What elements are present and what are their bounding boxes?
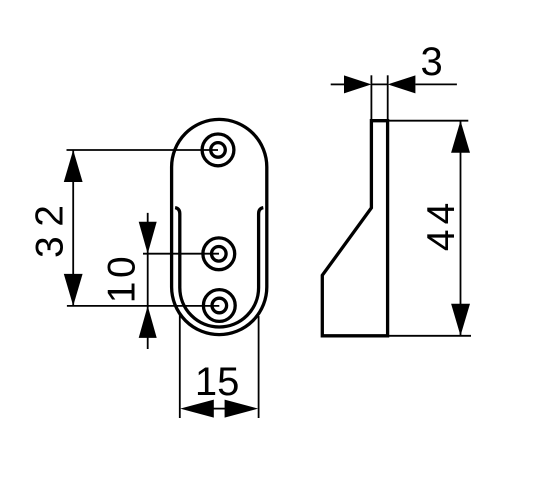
extension line 44 top <box>389 120 469 122</box>
arrowhead 3 left <box>344 75 371 93</box>
dimension line 3 left tail <box>331 83 345 85</box>
dimension line 44 <box>460 121 462 336</box>
extension line top hole center <box>67 149 219 151</box>
extension line middle hole center <box>143 253 219 255</box>
arrowhead 10 upper <box>139 222 157 254</box>
extension line 3 left <box>370 75 372 119</box>
hole bottom outer circle <box>203 290 235 322</box>
arrowhead 32 bottom <box>64 274 83 306</box>
hole middle outer circle <box>203 238 235 270</box>
extension line 15 right <box>258 316 260 418</box>
dimension line 3 middle <box>371 83 387 85</box>
extension line bottom hole center <box>67 305 219 307</box>
svg-text:10: 10 <box>101 253 144 303</box>
arrowhead 44 top <box>451 121 470 153</box>
hole top inner circle <box>211 143 226 158</box>
arrowhead 3 right <box>388 75 416 93</box>
arrowhead 10 lower <box>139 306 157 338</box>
svg-text:3: 3 <box>420 40 442 84</box>
arrowhead 15 left <box>180 400 214 418</box>
front view: outer stadium plate outline <box>172 119 267 334</box>
front view: inner recess contour (U shape) <box>175 208 263 327</box>
arrowhead 15 right <box>225 400 259 418</box>
extension line 44 bottom <box>389 335 472 337</box>
dimension line 3 right tail <box>415 83 457 85</box>
extension line 15 left <box>179 313 181 418</box>
hole top outer circle <box>202 134 234 166</box>
svg-text:44: 44 <box>420 198 463 251</box>
svg-text:15: 15 <box>195 360 240 404</box>
hole middle inner circle <box>212 247 227 262</box>
extension line 3 right <box>387 75 389 119</box>
dimension line 15 <box>212 408 226 410</box>
hole bottom inner circle <box>212 298 227 313</box>
dimension line 32 <box>72 150 74 306</box>
arrowhead 44 bottom <box>451 304 470 336</box>
svg-text:32: 32 <box>29 196 72 258</box>
dimension line 10 <box>147 213 149 349</box>
side view: profile outline <box>322 121 387 336</box>
arrowhead 32 top <box>64 150 83 182</box>
